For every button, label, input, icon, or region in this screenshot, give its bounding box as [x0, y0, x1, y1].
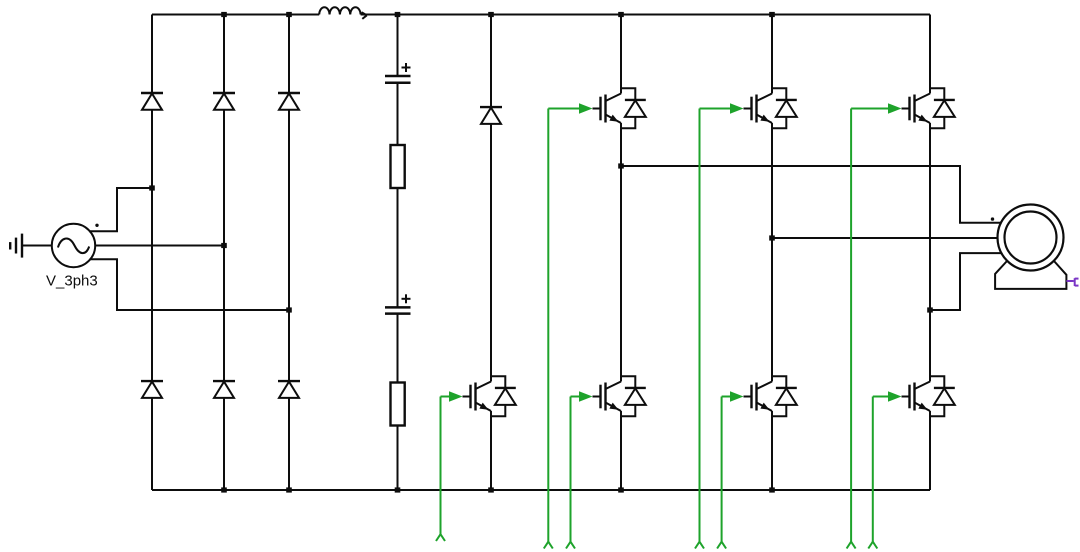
wire source phase C [90, 259, 289, 310]
transistor Q3 (inverter leg C high) [902, 94, 931, 124]
diode Q1 freewheel [621, 88, 646, 128]
node phase C tap [286, 307, 292, 312]
diode Q5 freewheel [621, 376, 646, 416]
node DC- leg B [769, 487, 775, 492]
wire chopper leg middle [490, 124, 492, 382]
transistor Q7 (inverter leg C low) [902, 382, 931, 412]
diode Q7 freewheel [930, 376, 955, 416]
wire rectifier leg 1 middle [151, 110, 153, 381]
node DC- cap leg [395, 487, 401, 492]
wire rectifier leg 1 upper [151, 15, 153, 94]
capacitor C2 (+) [385, 294, 411, 313]
diode D2 (rectifier top, phase B) [213, 93, 235, 110]
diode D3 (rectifier top, phase C) [278, 93, 300, 110]
transistor Q6 (inverter leg B low) [744, 382, 773, 412]
node DC- rect leg3 [286, 487, 292, 492]
wire phase V to motor [772, 237, 998, 239]
wire gate drive g2 (leg B high) [695, 103, 752, 548]
motor rotor terminal (purple) [1066, 278, 1078, 286]
diode D7 (chopper) [480, 107, 502, 124]
wire rectifier leg 2 middle [223, 110, 225, 381]
wire leg Q7 emitter [929, 411, 931, 490]
wire chopper leg upper [490, 15, 492, 108]
wire gate drive g4 (chopper) [436, 391, 471, 541]
motor M1 base [995, 261, 1066, 289]
diode D6 (rectifier bottom, phase C) [278, 381, 300, 398]
node DC- chopper leg [488, 487, 494, 492]
wire ground to source [22, 245, 52, 247]
wire rectifier leg 1 lower [151, 398, 153, 490]
node DC+ leg A [618, 12, 624, 17]
wire rectifier leg 3 upper [288, 15, 290, 94]
transistor Q2 (inverter leg B high) [744, 94, 773, 124]
wire leg Q6 emitter [771, 411, 773, 490]
wire rectifier leg 2 lower [223, 398, 225, 490]
wire top rail left (rectifier DC+ to inductor) [152, 14, 319, 16]
wire gate drive g7 (leg C low) [868, 391, 909, 548]
wire phase W to motor [930, 253, 1004, 310]
wire C2 to R2 [397, 314, 399, 383]
node leg A output [618, 163, 624, 168]
wire leg Q1-Q5 midpoint [620, 123, 622, 382]
wire phase U to motor [621, 166, 1004, 223]
node DC+ rect leg2 [221, 12, 227, 17]
wire leg Q5 emitter [620, 411, 622, 490]
wire R2 to DC- rail [397, 426, 399, 491]
wire leg Q2-Q6 midpoint [771, 123, 773, 382]
wire DC link upper [397, 15, 399, 77]
diode D5 (rectifier bottom, phase B) [213, 381, 235, 398]
capacitor C1 (+) [385, 63, 411, 83]
diode Q3 freewheel [930, 88, 955, 128]
wire gate drive g6 (leg B low) [717, 391, 751, 548]
node phase B tap [221, 243, 227, 248]
node DC+ rect leg3 [286, 12, 292, 17]
wire leg Q1 collector [620, 15, 622, 94]
wire gate drive g3 (leg C high) [847, 103, 910, 548]
wire leg Q3 collector [929, 15, 931, 94]
wire gate drive g1 (leg A high) [544, 103, 601, 548]
node DC+ chopper leg [488, 12, 494, 17]
motor M1 [991, 205, 1064, 271]
wire gate drive g5 (leg A low) [566, 391, 601, 548]
wire leg Q2 collector [771, 15, 773, 94]
wire source phase B [95, 245, 224, 247]
diode Q4 freewheel [491, 376, 516, 416]
wire rectifier leg 3 middle [288, 110, 290, 381]
inductor L1 [319, 7, 367, 19]
node phase A tap [149, 185, 155, 190]
wire rectifier leg 2 upper [223, 15, 225, 94]
diode Q6 freewheel [772, 376, 797, 416]
diode Q2 freewheel [772, 88, 797, 128]
diode D4 (rectifier bottom, phase A) [141, 381, 163, 398]
node leg C output [927, 307, 933, 312]
wire R1 to C2 [397, 188, 399, 307]
wire source phase A [90, 188, 152, 231]
resistor R1 [391, 145, 405, 188]
svg-text:V_3ph3: V_3ph3 [46, 273, 98, 290]
diode D1 (rectifier top, phase A) [141, 93, 163, 110]
node DC+ leg B [769, 12, 775, 17]
transistor Q4 (chopper IGBT) [463, 382, 492, 412]
node DC- leg A [618, 487, 624, 492]
wire bottom rail (DC- bus) [152, 489, 930, 491]
node DC- rect leg2 [221, 487, 227, 492]
transistor Q5 (inverter leg A low) [593, 382, 622, 412]
wire C1 to R1 [397, 83, 399, 145]
wire chopper leg lower [490, 411, 492, 490]
wire top rail right (DC+ bus) [361, 14, 930, 16]
ground [10, 234, 22, 258]
wire leg Q3-Q7 midpoint [929, 123, 931, 382]
node leg B output [769, 235, 775, 240]
resistor R2 [391, 383, 405, 426]
wire rectifier leg 3 lower [288, 398, 290, 490]
node DC+ cap leg [395, 12, 401, 17]
source V_3ph3 (3-phase AC source) [52, 224, 99, 268]
transistor Q1 (inverter leg A high) [593, 94, 622, 124]
